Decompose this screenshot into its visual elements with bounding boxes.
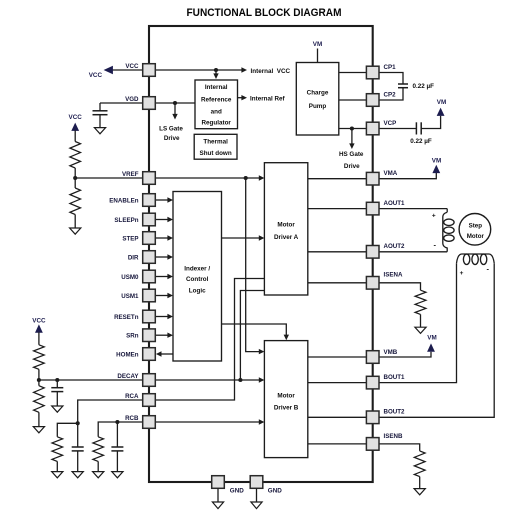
wire SRn to indexer <box>156 333 174 338</box>
svg-text:HS Gate: HS Gate <box>339 151 364 158</box>
wire R2 to ground <box>74 215 76 229</box>
pin BOUT2 <box>366 409 405 424</box>
step motor circle <box>459 214 491 246</box>
wire cap to ground <box>99 115 101 128</box>
wire VM to charge pump <box>317 49 319 63</box>
resistor R4 <box>34 386 45 413</box>
ground arrow GND2 <box>251 502 262 509</box>
svg-text:Indexer /: Indexer / <box>184 266 210 273</box>
pin DECAY <box>117 373 155 386</box>
svg-text:Internal: Internal <box>205 84 228 91</box>
wire ENABLEn to indexer <box>156 197 174 202</box>
wire node to R4 <box>38 380 40 386</box>
wire VMA to VM <box>379 173 436 179</box>
junction RCA node <box>76 421 80 425</box>
svg-text:0.22 µF: 0.22 µF <box>410 138 432 145</box>
wire VCC to R3 <box>38 332 40 345</box>
block U1 Internal Reference and Regulator <box>195 80 238 129</box>
pin RCB <box>125 415 155 428</box>
svg-text:FUNCTIONAL BLOCK DIAGRAM: FUNCTIONAL BLOCK DIAGRAM <box>187 7 342 19</box>
capacitor C4 on DECAY <box>51 388 63 392</box>
power arrow VCC at DECAY divider <box>35 324 43 332</box>
wire RESETn to indexer <box>156 314 174 319</box>
wire USM0 to indexer <box>156 274 174 279</box>
resistor R6 <box>93 437 104 462</box>
pin SLEEPn <box>114 213 155 226</box>
ground under R2 <box>70 228 81 234</box>
wire VCC to R1 <box>74 131 76 142</box>
resistor R2 <box>70 188 81 215</box>
junction DECAY node <box>238 378 242 382</box>
wire driver B to VMB <box>308 356 366 358</box>
pin USM1 <box>121 289 155 302</box>
label VM at VCP <box>437 99 446 106</box>
wire R4 to ground <box>38 412 40 426</box>
pin AOUT1 <box>366 200 405 215</box>
wire VCC net to left arrow <box>112 69 143 71</box>
wire cap to CP2 <box>379 88 403 100</box>
svg-text:AOUT2: AOUT2 <box>384 243 406 250</box>
arrow VREF into driver A <box>259 175 265 180</box>
svg-text:VM: VM <box>427 335 436 342</box>
svg-text:Driver A: Driver A <box>274 234 299 241</box>
svg-text:Charge: Charge <box>307 90 329 97</box>
svg-text:ISENA: ISENA <box>384 272 403 279</box>
svg-text:VGD: VGD <box>125 96 139 103</box>
wire RCB node to C6 <box>116 422 118 447</box>
arrow VREF into driver B <box>259 349 265 354</box>
svg-text:-: - <box>434 240 437 249</box>
svg-text:DECAY: DECAY <box>117 373 139 380</box>
wire internal VCC <box>156 69 243 71</box>
svg-text:VMA: VMA <box>384 170 398 177</box>
svg-text:Internal Ref: Internal Ref <box>250 95 286 102</box>
svg-text:-: - <box>486 264 489 273</box>
wire indexer to driver B <box>222 324 290 340</box>
svg-text:AOUT1: AOUT1 <box>384 200 406 207</box>
wire driver B to BOUT1 <box>308 382 366 384</box>
svg-text:BOUT2: BOUT2 <box>384 409 406 416</box>
pin GND2 <box>250 476 282 495</box>
pin STEP <box>122 232 155 245</box>
resistor R7 <box>415 290 426 314</box>
wire SLEEPn to indexer <box>156 217 174 222</box>
wire DECAY cap stub <box>56 380 58 388</box>
wire C6 to ground <box>116 451 118 472</box>
wire DIR to indexer <box>156 254 174 259</box>
wire down to regulator <box>215 70 217 75</box>
junction RCB node <box>115 420 119 424</box>
svg-text:Step: Step <box>469 223 483 230</box>
svg-text:USM0: USM0 <box>121 274 139 281</box>
label C3 value <box>410 138 432 145</box>
svg-text:Motor: Motor <box>467 233 485 240</box>
wire charge pump to CP2 <box>339 99 366 101</box>
resistor R8 <box>414 451 425 477</box>
junction HS gate node <box>350 126 354 130</box>
svg-text:ENABLEn: ENABLEn <box>109 197 138 204</box>
wire driver B to ISENB <box>308 443 366 445</box>
wire ISENA to R7 <box>379 283 420 290</box>
svg-text:Motor: Motor <box>277 393 295 400</box>
power arrow VM at VCP <box>437 108 445 116</box>
capacitor C1 on VGD <box>93 111 108 115</box>
label LS Gate Drive <box>159 126 183 142</box>
pin GND1 <box>212 476 245 495</box>
wire node to VREF pin <box>75 177 142 179</box>
label Internal VCC <box>251 68 291 75</box>
wire STEP to indexer <box>156 235 174 240</box>
wire driver B to BOUT2 <box>308 416 366 418</box>
label VM charge pump <box>313 41 322 48</box>
label HS Gate Drive <box>339 151 364 170</box>
label winding B plus <box>460 270 464 277</box>
block U2 Thermal Shut down <box>194 134 237 159</box>
block U3 Charge Pump <box>296 63 339 136</box>
svg-text:Logic: Logic <box>189 288 206 295</box>
ground under C5 <box>72 472 83 478</box>
svg-text:Motor: Motor <box>277 222 295 229</box>
arrow LS gate drive <box>172 114 177 120</box>
wire indexer to HOMEn <box>156 351 173 356</box>
ground under C1 <box>94 128 105 134</box>
wire cap stub <box>99 103 101 111</box>
svg-text:Drive: Drive <box>344 163 360 170</box>
wire R3 to DECAY node <box>38 369 40 380</box>
wire driver A to AOUT2 <box>308 251 366 253</box>
svg-text:VCC: VCC <box>125 63 139 70</box>
svg-text:+: + <box>460 270 464 277</box>
wire VGD to cap <box>100 102 143 104</box>
wire USM1 to indexer <box>156 293 174 298</box>
block U6 Motor Driver B <box>264 341 307 458</box>
capacitor C2 0.22uF <box>398 84 408 88</box>
wire driver A to ISENA <box>308 282 366 284</box>
svg-text:SLEEPn: SLEEPn <box>114 217 138 224</box>
pin ENABLEn <box>109 194 155 207</box>
svg-text:USM1: USM1 <box>121 293 139 300</box>
pin HOMEn <box>116 348 155 361</box>
label winding B minus <box>486 264 489 273</box>
label VCC at VREF divider <box>69 114 83 121</box>
ground under R4 <box>33 427 44 433</box>
wire RCB node to R6 <box>98 422 117 437</box>
label C2 value <box>413 83 435 90</box>
arrow into Internal VCC <box>241 67 247 72</box>
wire ISENB to R8 <box>379 444 420 451</box>
pin RCA <box>125 393 155 406</box>
svg-text:Thermal: Thermal <box>203 139 228 146</box>
wire LS gate drive <box>174 103 176 115</box>
junction VREF divider node <box>73 176 77 180</box>
pin VGD <box>125 96 155 109</box>
svg-text:VM: VM <box>437 99 446 106</box>
wire VMB to VM <box>379 352 431 357</box>
svg-text:Control: Control <box>186 276 209 283</box>
svg-text:Drive: Drive <box>164 135 180 142</box>
wire RCA to node <box>78 400 143 423</box>
wire C4 to ground <box>56 392 58 406</box>
wire CP1 to cap <box>379 73 403 85</box>
svg-text:SRn: SRn <box>126 333 139 340</box>
svg-text:GND: GND <box>268 488 282 495</box>
label winding A plus <box>432 213 436 220</box>
svg-text:VCC: VCC <box>69 114 83 121</box>
svg-text:VMB: VMB <box>384 349 398 356</box>
wire winding A to AOUT2 <box>379 251 447 253</box>
wire R8 to ground <box>419 477 421 489</box>
svg-text:DIR: DIR <box>128 254 139 261</box>
power arrow VM at VMA <box>432 165 440 173</box>
pin RESETn <box>114 310 155 323</box>
pin CP1 <box>366 64 396 79</box>
arrow into regulator top <box>213 73 218 79</box>
junction internal VCC node <box>214 68 218 72</box>
power arrow VM at VMB <box>427 343 435 351</box>
svg-text:+: + <box>432 213 436 220</box>
ground under R6 <box>93 472 104 478</box>
label VCC at DECAY divider <box>32 318 46 325</box>
wire HS gate drive <box>351 129 353 145</box>
wire BOUT1 to winding B <box>379 263 456 382</box>
wire VREF to Motor Driver A <box>156 177 261 179</box>
arrow Internal Ref <box>241 95 247 100</box>
label Internal Ref <box>250 95 286 102</box>
wire regulator output <box>238 97 243 99</box>
wire C5 to ground <box>77 451 79 472</box>
svg-text:VCC: VCC <box>89 72 103 79</box>
wire node to R2 <box>74 178 76 188</box>
svg-text:LS Gate: LS Gate <box>159 126 183 133</box>
ground under R7 <box>415 327 426 333</box>
pin AOUT2 <box>366 243 405 258</box>
pin VCP <box>366 120 396 135</box>
svg-text:and: and <box>211 108 222 115</box>
svg-text:CP1: CP1 <box>384 64 397 71</box>
wire RCB to node <box>117 421 142 423</box>
junction VREF riser node <box>244 176 248 180</box>
junction DECAY cap node <box>55 378 59 382</box>
block U4 Indexer / Control Logic <box>173 192 222 362</box>
resistor R5 <box>52 437 63 462</box>
wire winding B to BOUT2 <box>379 263 494 417</box>
arrow HS gate drive <box>349 143 354 149</box>
svg-text:Internal VCC: Internal VCC <box>251 68 291 75</box>
resistor R1 <box>70 142 81 169</box>
wire DECAY to driver B <box>156 377 265 382</box>
wire RCB to driver B <box>156 419 265 424</box>
label winding A minus <box>434 240 437 249</box>
wire AOUT1 to winding A <box>379 208 447 210</box>
pin SRn <box>126 329 155 342</box>
wire driver A to VMA <box>308 178 366 180</box>
svg-text:STEP: STEP <box>122 235 138 242</box>
svg-text:VCP: VCP <box>384 120 397 127</box>
pin CP2 <box>366 92 396 107</box>
main IC outline box <box>149 26 373 482</box>
inductor LA winding <box>443 209 454 252</box>
svg-text:Driver B: Driver B <box>274 405 299 412</box>
capacitor C5 <box>72 447 84 451</box>
junction DECAY divider node <box>37 378 41 382</box>
wire driver A to AOUT1 <box>308 208 366 210</box>
block U5 Motor Driver A <box>264 163 307 295</box>
wire indexer to driver A <box>222 235 265 240</box>
svg-text:HOMEn: HOMEn <box>116 351 139 358</box>
wire driver A to DECAY riser <box>240 291 264 381</box>
wire GND1 arrow <box>217 489 219 503</box>
ground under C4 <box>52 406 63 412</box>
svg-text:CP2: CP2 <box>384 92 397 99</box>
pin VMB <box>366 349 397 364</box>
power arrow VCC (left) <box>104 66 113 74</box>
junction LS gate node <box>173 101 177 105</box>
inductor LB winding <box>457 254 495 265</box>
wire VCP to cap <box>379 128 416 130</box>
pin ISENB <box>366 433 403 450</box>
ground under R5 <box>52 472 63 478</box>
pin VREF <box>122 171 155 184</box>
svg-text:Pump: Pump <box>309 103 327 110</box>
svg-text:VREF: VREF <box>122 171 139 178</box>
pin BOUT1 <box>366 374 405 389</box>
wire R5 to ground <box>56 461 58 471</box>
svg-text:VM: VM <box>432 157 441 164</box>
label VCC net <box>89 72 103 79</box>
wire driver A to RCA riser <box>156 279 265 401</box>
svg-text:0.22 µF: 0.22 µF <box>413 83 435 90</box>
pin VCC <box>125 63 155 76</box>
svg-text:ISENB: ISENB <box>384 433 403 440</box>
wire GND2 arrow <box>256 489 258 503</box>
svg-text:VCC: VCC <box>32 318 46 325</box>
wire RCA node to R5 <box>57 423 77 437</box>
wire charge pump to CP1 <box>339 72 366 74</box>
wire node to DECAY pin <box>39 379 143 381</box>
svg-text:BOUT1: BOUT1 <box>384 374 406 381</box>
svg-text:VM: VM <box>313 41 322 48</box>
pin VMA <box>366 170 397 185</box>
ground under C6 <box>112 472 123 478</box>
label VM at VMA <box>432 157 441 164</box>
title text <box>187 7 342 19</box>
ground arrow GND1 <box>212 502 223 509</box>
pin USM0 <box>121 270 155 283</box>
svg-text:RCB: RCB <box>125 415 139 422</box>
wire R7 to ground <box>420 314 422 327</box>
svg-text:Reference: Reference <box>201 96 232 103</box>
wire charge pump to VCP <box>339 128 366 130</box>
wire R1 to node <box>74 168 76 178</box>
svg-text:RESETn: RESETn <box>114 314 139 321</box>
wire R6 to ground <box>97 461 99 471</box>
svg-text:Shut down: Shut down <box>200 150 232 157</box>
label VM at VMB <box>427 335 436 342</box>
capacitor C3 0.22uF <box>416 122 421 134</box>
wire cap to VM <box>421 116 440 129</box>
capacitor C6 <box>111 447 123 451</box>
svg-text:RCA: RCA <box>125 393 139 400</box>
svg-text:Regulator: Regulator <box>202 120 232 127</box>
wire VREF riser <box>246 178 260 352</box>
resistor R3 <box>34 345 45 370</box>
power arrow VCC at VREF divider <box>71 123 79 131</box>
svg-text:GND: GND <box>230 488 244 495</box>
wire VGD to regulator <box>156 102 196 104</box>
ground under R8 <box>414 489 425 495</box>
pin DIR <box>128 251 155 264</box>
wire RCA node to C5 <box>77 423 79 447</box>
pin ISENA <box>366 272 403 290</box>
